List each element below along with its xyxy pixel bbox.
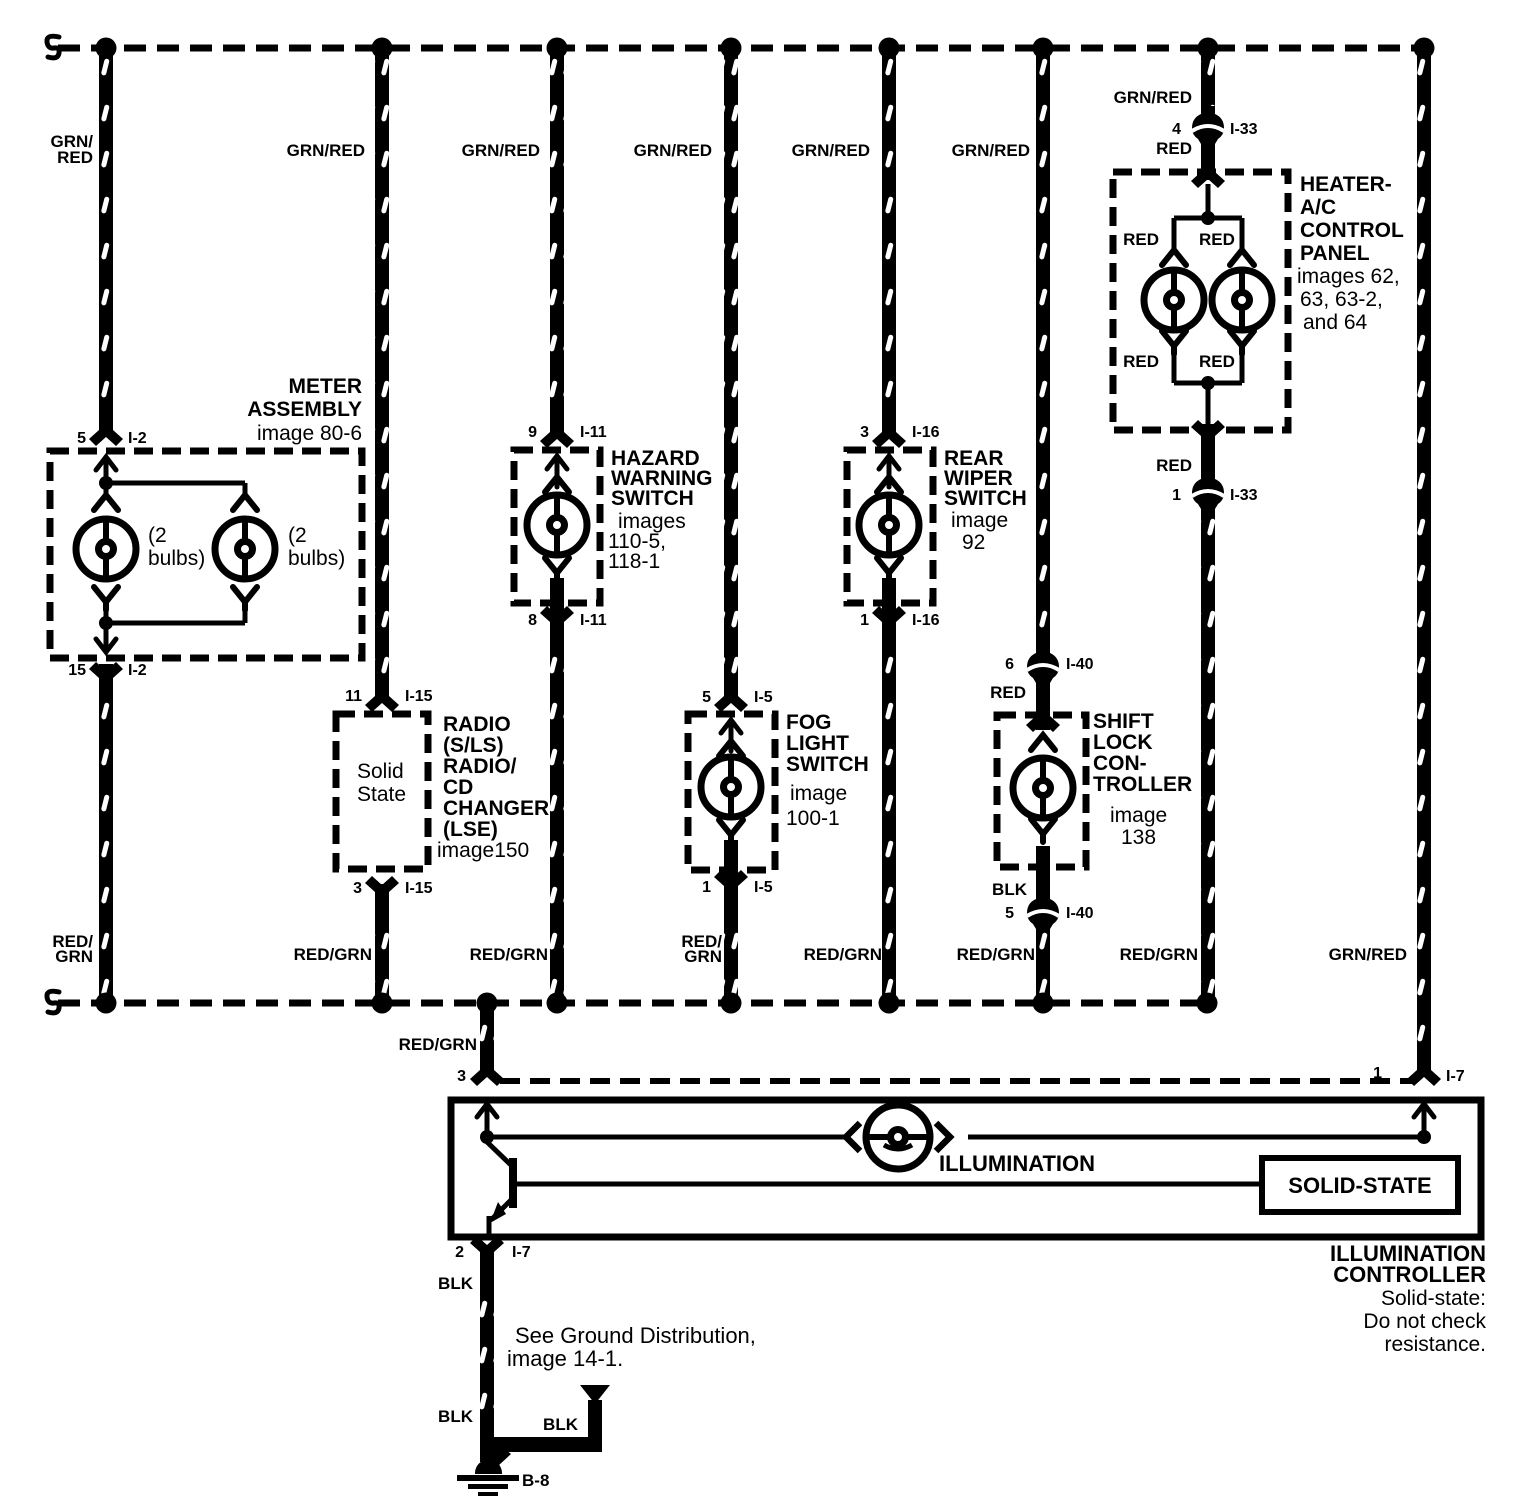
svg-text:5: 5 bbox=[1005, 905, 1014, 922]
svg-text:GRN/RED: GRN/RED bbox=[287, 141, 365, 160]
svg-text:LIGHT: LIGHT bbox=[786, 732, 849, 755]
svg-text:BLK: BLK bbox=[992, 880, 1028, 899]
svg-text:PANEL: PANEL bbox=[1300, 242, 1370, 265]
svg-text:I-7: I-7 bbox=[1446, 1068, 1465, 1085]
svg-text:SWITCH: SWITCH bbox=[786, 753, 869, 776]
svg-text:CONTROLLER: CONTROLLER bbox=[1333, 1262, 1486, 1287]
svg-text:15: 15 bbox=[68, 662, 86, 679]
svg-text:1: 1 bbox=[1172, 487, 1181, 504]
svg-text:HEATER-: HEATER- bbox=[1300, 173, 1392, 196]
svg-text:RED: RED bbox=[1123, 352, 1159, 371]
svg-text:1: 1 bbox=[702, 879, 711, 896]
svg-text:GRN: GRN bbox=[55, 947, 93, 966]
svg-text:2: 2 bbox=[455, 1244, 464, 1261]
svg-text:(S/LS): (S/LS) bbox=[443, 734, 504, 757]
svg-text:3: 3 bbox=[860, 424, 869, 441]
svg-text:I-5: I-5 bbox=[754, 689, 773, 706]
svg-text:CD: CD bbox=[443, 776, 473, 799]
svg-text:I-16: I-16 bbox=[912, 424, 940, 441]
svg-text:I-5: I-5 bbox=[754, 879, 773, 896]
svg-text:I-33: I-33 bbox=[1230, 487, 1258, 504]
svg-text:GRN/RED: GRN/RED bbox=[1114, 88, 1192, 107]
svg-text:(LSE): (LSE) bbox=[443, 818, 498, 841]
svg-text:4: 4 bbox=[1172, 121, 1181, 138]
svg-text:9: 9 bbox=[528, 424, 537, 441]
svg-text:11: 11 bbox=[345, 688, 362, 705]
svg-text:(2: (2 bbox=[288, 524, 307, 547]
svg-text:GRN/RED: GRN/RED bbox=[634, 141, 712, 160]
svg-text:Solid: Solid bbox=[357, 760, 404, 783]
svg-text:GRN/RED: GRN/RED bbox=[1329, 945, 1407, 964]
svg-text:SWITCH: SWITCH bbox=[611, 487, 694, 510]
svg-text:RED: RED bbox=[1156, 139, 1192, 158]
svg-text:(2: (2 bbox=[148, 524, 167, 547]
svg-text:See Ground Distribution,: See Ground Distribution, bbox=[515, 1323, 756, 1348]
svg-text:3: 3 bbox=[457, 1068, 466, 1085]
svg-text:1: 1 bbox=[860, 612, 869, 629]
svg-text:RED: RED bbox=[1123, 230, 1159, 249]
svg-text:RED/GRN: RED/GRN bbox=[1120, 945, 1198, 964]
svg-text:I-2: I-2 bbox=[128, 662, 147, 679]
svg-text:92: 92 bbox=[962, 531, 985, 554]
svg-text:118-1: 118-1 bbox=[608, 550, 660, 573]
svg-text:SHIFT: SHIFT bbox=[1093, 710, 1154, 733]
svg-text:RED: RED bbox=[1199, 230, 1235, 249]
svg-text:BLK: BLK bbox=[438, 1274, 474, 1293]
svg-text:B-8: B-8 bbox=[522, 1471, 549, 1490]
svg-text:image150: image150 bbox=[437, 839, 529, 862]
svg-text:I-2: I-2 bbox=[128, 430, 147, 447]
svg-text:BLK: BLK bbox=[543, 1415, 579, 1434]
svg-text:3: 3 bbox=[353, 880, 362, 897]
svg-text:Do not check: Do not check bbox=[1363, 1310, 1486, 1333]
svg-text:GRN: GRN bbox=[684, 947, 722, 966]
svg-text:image 14-1.: image 14-1. bbox=[507, 1346, 623, 1371]
svg-text:GRN/RED: GRN/RED bbox=[462, 141, 540, 160]
svg-text:I-16: I-16 bbox=[912, 612, 940, 629]
svg-text:6: 6 bbox=[1005, 656, 1014, 673]
svg-text:RADIO/: RADIO/ bbox=[443, 755, 517, 778]
svg-text:BLK: BLK bbox=[438, 1407, 474, 1426]
svg-text:ILLUMINATION: ILLUMINATION bbox=[939, 1151, 1095, 1176]
svg-text:RED/GRN: RED/GRN bbox=[294, 945, 372, 964]
svg-text:resistance.: resistance. bbox=[1384, 1333, 1486, 1356]
svg-text:image: image bbox=[951, 509, 1008, 532]
svg-text:and 64: and 64 bbox=[1303, 311, 1368, 334]
svg-text:5: 5 bbox=[702, 689, 711, 706]
svg-text:CONTROL: CONTROL bbox=[1300, 219, 1404, 242]
svg-text:GRN/RED: GRN/RED bbox=[792, 141, 870, 160]
svg-text:METER: METER bbox=[289, 375, 363, 398]
svg-text:RED: RED bbox=[1156, 456, 1192, 475]
svg-text:FOG: FOG bbox=[786, 711, 832, 734]
svg-text:I-33: I-33 bbox=[1230, 121, 1258, 138]
svg-text:A/C: A/C bbox=[1300, 196, 1336, 219]
svg-text:CON-: CON- bbox=[1093, 752, 1147, 775]
svg-text:image: image bbox=[790, 782, 847, 805]
svg-text:Solid-state:: Solid-state: bbox=[1381, 1287, 1486, 1310]
svg-text:RED: RED bbox=[990, 683, 1026, 702]
svg-text:RED/GRN: RED/GRN bbox=[957, 945, 1035, 964]
svg-text:I-15: I-15 bbox=[405, 880, 433, 897]
svg-text:1: 1 bbox=[1373, 1065, 1382, 1082]
svg-text:SOLID-STATE: SOLID-STATE bbox=[1288, 1173, 1431, 1198]
svg-text:8: 8 bbox=[528, 612, 537, 629]
svg-text:RED/GRN: RED/GRN bbox=[470, 945, 548, 964]
svg-text:I-7: I-7 bbox=[512, 1244, 531, 1261]
svg-text:RED: RED bbox=[57, 148, 93, 167]
svg-text:100-1: 100-1 bbox=[786, 807, 840, 830]
svg-text:GRN/RED: GRN/RED bbox=[952, 141, 1030, 160]
svg-text:RED/GRN: RED/GRN bbox=[804, 945, 882, 964]
svg-text:bulbs): bulbs) bbox=[148, 547, 205, 570]
svg-text:image 80-6: image 80-6 bbox=[257, 422, 362, 445]
svg-text:I-15: I-15 bbox=[405, 688, 433, 705]
svg-text:ASSEMBLY: ASSEMBLY bbox=[247, 398, 362, 421]
svg-text:SWITCH: SWITCH bbox=[944, 487, 1027, 510]
svg-text:RED/GRN: RED/GRN bbox=[399, 1035, 477, 1054]
svg-text:TROLLER: TROLLER bbox=[1093, 773, 1192, 796]
svg-text:CHANGER: CHANGER bbox=[443, 797, 549, 820]
svg-text:63, 63-2,: 63, 63-2, bbox=[1300, 288, 1383, 311]
svg-text:bulbs): bulbs) bbox=[288, 547, 345, 570]
svg-text:RED: RED bbox=[1199, 352, 1235, 371]
svg-text:I-11: I-11 bbox=[580, 424, 607, 441]
svg-text:138: 138 bbox=[1121, 826, 1156, 849]
svg-text:I-40: I-40 bbox=[1066, 656, 1094, 673]
svg-text:State: State bbox=[357, 783, 406, 806]
svg-text:I-11: I-11 bbox=[580, 612, 607, 629]
svg-text:LOCK: LOCK bbox=[1093, 731, 1153, 754]
svg-text:images 62,: images 62, bbox=[1297, 265, 1400, 288]
svg-text:image: image bbox=[1110, 804, 1167, 827]
svg-text:I-40: I-40 bbox=[1066, 905, 1094, 922]
svg-text:RADIO: RADIO bbox=[443, 713, 511, 736]
svg-text:5: 5 bbox=[77, 430, 86, 447]
